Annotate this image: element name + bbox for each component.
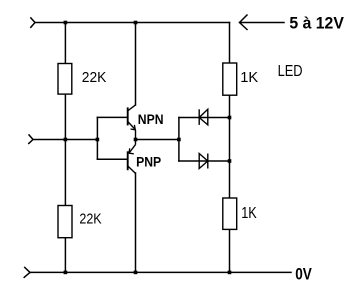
resistor R4 1K bottom	[223, 198, 237, 229]
node diode bottom right junction	[228, 159, 232, 163]
transistor Q2 PNP	[128, 140, 136, 174]
node bottom rail / center rail	[134, 271, 138, 275]
wire top rail 5-12V	[35, 22, 230, 24]
node input bottom-left arrow	[24, 267, 30, 277]
node input / base link	[96, 138, 100, 142]
wire center rail top (NPN collector feed)	[135, 23, 137, 106]
svg-text:22K: 22K	[82, 70, 107, 87]
wire bottom rail 0V	[30, 271, 291, 273]
resistor R1 22K top	[58, 64, 72, 95]
node input / left rail	[64, 138, 68, 142]
node arrow pointing to supply rail	[240, 15, 285, 30]
svg-text:PNP: PNP	[136, 153, 161, 169]
svg-text:NPN: NPN	[138, 111, 164, 127]
diode D1 (cathode left, pointing left)	[199, 109, 208, 125]
wire middle input line	[33, 139, 97, 141]
node input middle-left arrow	[29, 135, 33, 144]
wire center rail bottom (PNP collector feed)	[135, 173, 137, 272]
wire NPN base stub	[97, 116, 127, 118]
wire output line to diodes	[136, 139, 179, 141]
wire right rail vertical	[229, 23, 231, 273]
wire diode bottom branch	[179, 160, 230, 162]
diode D2 (anode left, pointing right)	[199, 154, 208, 169]
node bottom rail / right rail	[228, 271, 232, 275]
svg-text:0V: 0V	[295, 265, 312, 284]
svg-text:1K: 1K	[240, 70, 258, 86]
wire base vertical link	[96, 117, 98, 159]
resistor R2 22K bottom	[58, 206, 72, 238]
transistor Q1 NPN	[128, 105, 136, 140]
node diode left junction	[177, 138, 181, 142]
svg-text:LED: LED	[278, 62, 303, 79]
resistor R3 1K top	[223, 63, 237, 95]
wire left rail vertical	[64, 23, 66, 273]
node top rail / center rail	[134, 21, 138, 25]
svg-text:1K: 1K	[241, 205, 257, 222]
node bottom rail / left rail	[64, 271, 68, 275]
node top rail / left rail	[64, 21, 68, 25]
wire PNP base stub	[97, 158, 127, 160]
wire diode top branch	[179, 117, 230, 119]
svg-text:5 à 12V: 5 à 12V	[289, 14, 344, 33]
node diode top right junction	[228, 116, 232, 120]
node emitter junction	[134, 138, 138, 142]
svg-text:22K: 22K	[79, 210, 102, 227]
wire diode left vertical	[178, 118, 180, 162]
node input top-left arrow	[31, 18, 35, 27]
